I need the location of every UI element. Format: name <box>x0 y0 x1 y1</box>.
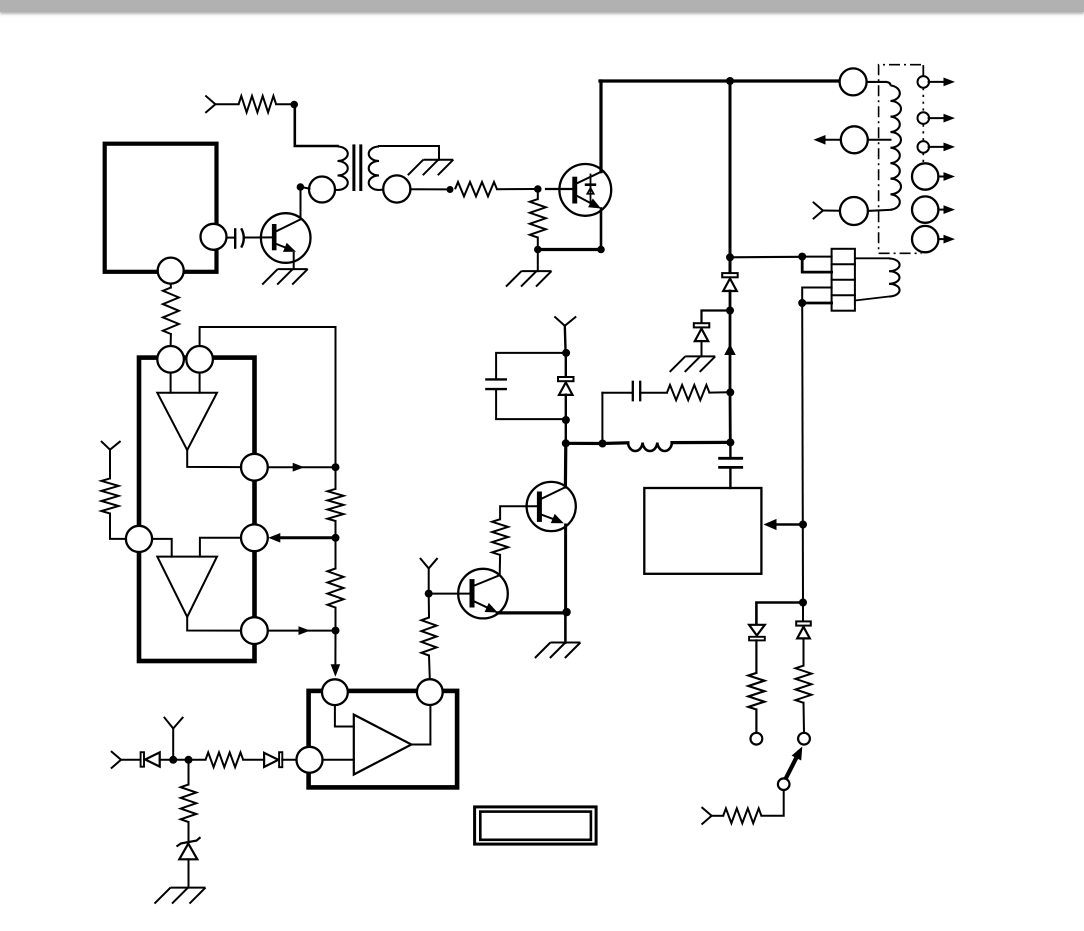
wire <box>188 859 190 887</box>
resistor R11 <box>796 666 812 703</box>
wire <box>170 284 172 288</box>
pin circle <box>241 454 268 481</box>
diode D5 (left) <box>141 752 160 767</box>
wire (Q3 emitter) <box>564 525 567 612</box>
node circle (tap) <box>840 197 868 225</box>
arrow into U3 <box>764 519 804 530</box>
display box <box>475 807 596 844</box>
wire <box>496 353 566 380</box>
arrow into U2 <box>331 664 341 677</box>
wire <box>729 392 732 442</box>
wire <box>276 103 292 105</box>
box U5 (module) <box>105 144 217 272</box>
node dot <box>597 246 605 254</box>
linearity coil block <box>832 249 855 311</box>
node dot <box>726 388 734 396</box>
wire <box>496 389 565 419</box>
input port Y (antenna) J6 <box>102 442 120 450</box>
wire <box>801 303 804 603</box>
input port J7 <box>112 752 140 768</box>
wire <box>110 514 126 539</box>
wire <box>761 790 783 816</box>
node circle (flyback top pin) <box>840 68 867 95</box>
pin circle <box>186 346 213 373</box>
ground <box>155 888 206 904</box>
wire <box>566 441 628 445</box>
wire <box>293 253 295 269</box>
wire <box>546 188 572 190</box>
wire <box>281 536 336 539</box>
transistor Q1 <box>261 213 311 263</box>
pin circle <box>126 526 152 552</box>
pin circle <box>912 163 938 189</box>
node dot <box>297 183 305 191</box>
wire <box>537 238 539 250</box>
box U3 (deflection module) <box>644 488 761 574</box>
wire <box>243 759 263 761</box>
output arrow <box>929 114 955 123</box>
node circle (T1 secondary bottom) <box>383 175 410 202</box>
wire <box>537 250 539 272</box>
node dot <box>534 246 542 254</box>
resistor R1 <box>239 96 277 112</box>
diode D8 (right) <box>264 752 282 767</box>
output arrow <box>929 143 955 152</box>
contact circle <box>798 733 810 745</box>
damper diode inside Q2 <box>585 175 596 206</box>
wire <box>802 256 831 258</box>
wire <box>755 640 757 673</box>
input port Y (antenna) J4 <box>421 559 437 569</box>
input port J1 <box>206 96 239 112</box>
node dot <box>726 77 734 85</box>
wire <box>803 639 805 666</box>
wire <box>189 759 206 761</box>
wire <box>602 392 631 394</box>
wire <box>411 705 430 745</box>
input port J2 <box>814 203 840 219</box>
ground <box>670 356 716 372</box>
wire <box>564 443 568 487</box>
wire (Q2 emitter) <box>600 209 603 250</box>
capacitor C1 <box>235 228 244 247</box>
node dot <box>185 756 193 764</box>
resistor R12 <box>723 808 761 823</box>
wire <box>335 705 354 726</box>
output arrow <box>938 172 955 181</box>
output arrow <box>938 205 955 214</box>
switch pivot circle <box>778 778 790 790</box>
node dot <box>562 439 570 447</box>
transistor Q2 <box>559 164 611 216</box>
wire <box>702 311 731 324</box>
wire (Q4 emitter) <box>497 611 566 614</box>
wire <box>756 603 803 625</box>
pin circle <box>241 524 268 551</box>
wire <box>152 539 172 557</box>
resistor R6 <box>101 478 118 513</box>
wire (Q4 base) <box>429 593 470 595</box>
node dot <box>332 627 340 635</box>
arrow out (AFC) <box>814 135 826 145</box>
pin circle <box>322 679 348 705</box>
wire <box>323 759 354 761</box>
wire <box>755 710 757 733</box>
node dot <box>562 349 570 357</box>
wire <box>160 759 186 761</box>
wire <box>244 236 272 238</box>
wire <box>188 822 190 840</box>
node dot <box>726 438 734 446</box>
wire <box>709 391 728 393</box>
small pin circle <box>918 76 930 88</box>
wire <box>170 373 172 393</box>
node dot <box>290 101 298 109</box>
wire <box>868 139 891 141</box>
wire <box>701 341 703 357</box>
node dot <box>798 299 806 307</box>
node dot <box>169 756 177 764</box>
capacitor C2 <box>633 382 640 400</box>
diode D3 <box>694 323 710 341</box>
node dot <box>798 253 806 261</box>
pin circle <box>157 346 184 373</box>
arrow on wire <box>268 533 280 543</box>
pin circle <box>297 747 323 773</box>
node dot <box>447 186 454 193</box>
pin circle <box>912 196 938 222</box>
block winding <box>855 258 900 300</box>
wire <box>729 81 732 257</box>
ground <box>535 643 581 659</box>
resistor R3 <box>163 288 179 335</box>
wire <box>187 617 241 631</box>
capacitor C3 <box>720 442 742 488</box>
resistor R2 <box>455 182 497 196</box>
transformer T1 core <box>354 146 361 190</box>
input port Y (antenna) J8 <box>165 718 183 760</box>
wire <box>334 631 336 666</box>
wire <box>564 326 567 353</box>
wire <box>188 760 190 785</box>
node dot <box>799 599 807 607</box>
resistor R7 <box>492 519 508 555</box>
dotted pin line <box>922 88 924 163</box>
wire <box>537 189 539 199</box>
amplifier A2 <box>157 557 217 617</box>
small pin circle <box>918 112 930 124</box>
wire <box>729 311 732 393</box>
wire <box>601 393 603 442</box>
dash-dot enclosure <box>879 65 922 254</box>
switch SW1 arm <box>785 747 803 782</box>
wire <box>564 612 567 642</box>
wire <box>803 703 806 733</box>
diode D6 (down) <box>749 625 765 641</box>
wire <box>199 373 201 393</box>
node dot <box>332 534 340 542</box>
pin circle <box>241 617 268 644</box>
wire <box>802 603 804 622</box>
wire <box>672 441 730 444</box>
amplifier A3 <box>354 715 412 775</box>
wire <box>428 594 430 618</box>
resistor R8a <box>328 467 344 538</box>
wire <box>295 105 338 147</box>
wire <box>868 210 891 211</box>
output arrow <box>938 235 955 244</box>
node circle (U5 right pin) <box>201 224 227 250</box>
wire <box>500 506 537 519</box>
node dot <box>799 521 807 529</box>
resistor R5 <box>667 385 709 400</box>
input port J5 <box>702 808 723 824</box>
wire <box>300 189 302 220</box>
resistor R14 <box>181 785 197 823</box>
feedback wire <box>200 327 336 464</box>
inductor L1 <box>628 443 672 451</box>
resistor R4 <box>530 199 546 237</box>
wire <box>428 656 431 680</box>
wire stub <box>922 66 924 76</box>
ground <box>408 160 454 176</box>
wire <box>499 555 501 575</box>
wire <box>200 538 241 557</box>
resistor R13 <box>206 752 244 767</box>
wire <box>170 334 172 346</box>
wire <box>282 759 296 761</box>
amplifier A1 <box>157 393 217 450</box>
ground <box>506 271 552 287</box>
transformer T1 primary winding <box>335 147 348 191</box>
node dot <box>425 590 433 598</box>
diode D2 <box>558 353 574 395</box>
small pin circle <box>918 141 930 153</box>
wire <box>428 568 430 593</box>
box U2 <box>309 691 458 788</box>
wire <box>268 630 333 632</box>
flyback T2 winding <box>867 82 901 210</box>
input port Y (antenna) J3 <box>555 317 575 326</box>
wire <box>826 139 841 141</box>
wire <box>802 257 831 273</box>
wire (B+ rail) <box>600 79 840 82</box>
node dot <box>562 416 570 424</box>
arrow on wire <box>724 344 736 355</box>
pin circle <box>912 226 938 252</box>
node dot <box>726 307 734 315</box>
wire <box>802 302 831 305</box>
wire <box>730 256 799 259</box>
diode D7 (up) <box>796 621 811 638</box>
diode D1 <box>722 257 738 291</box>
node dot <box>726 253 734 261</box>
node dot <box>534 185 542 193</box>
resistor R10 <box>748 673 764 710</box>
resistor R9 <box>421 618 436 656</box>
arrow on wire <box>293 463 305 472</box>
wire <box>640 392 667 394</box>
node dot <box>599 440 607 448</box>
pin circle <box>417 679 443 705</box>
capacitor C4 <box>486 379 505 389</box>
wire <box>109 450 111 479</box>
node circle (tap) <box>841 126 868 153</box>
ground <box>262 269 308 285</box>
wire <box>802 288 831 304</box>
wire <box>268 466 333 468</box>
output arrow <box>929 78 955 87</box>
wire <box>729 291 732 311</box>
node dot <box>332 463 340 471</box>
arrow on wire <box>299 626 311 635</box>
transistor Q4 <box>458 569 508 619</box>
wire <box>538 248 601 251</box>
wire <box>497 188 535 190</box>
resistor R8b <box>328 538 344 631</box>
zener Z1 <box>177 837 201 859</box>
contact circle <box>751 733 763 745</box>
node dot <box>562 608 570 616</box>
wire <box>187 450 241 467</box>
node circle (T1 primary bottom) <box>309 177 335 203</box>
node circle (U5 bottom pin) <box>158 258 184 284</box>
transistor Q3 <box>527 482 576 531</box>
wire <box>227 237 235 239</box>
wire <box>410 188 447 190</box>
transformer T1 secondary winding <box>369 146 439 190</box>
box U1 <box>139 358 255 661</box>
wire <box>303 187 309 188</box>
wire (Q2 collector) <box>599 81 602 172</box>
wire <box>565 395 567 444</box>
